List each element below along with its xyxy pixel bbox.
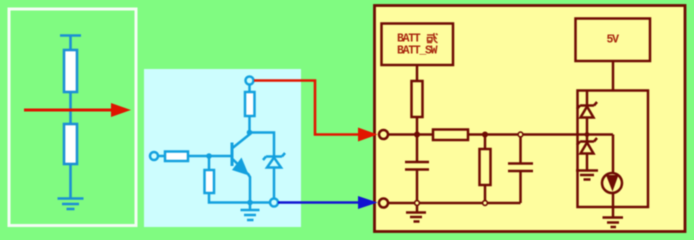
- junction collector node: [247, 130, 253, 136]
- current source arrow: [606, 175, 619, 192]
- terminal T1 collector supply: [246, 77, 254, 85]
- zener D1: [266, 155, 282, 158]
- wire bottom rail: [388, 202, 521, 205]
- ground: [58, 199, 84, 210]
- capacitor C1: [416, 135, 419, 162]
- label BATT 或 / BATT_SW: [397, 33, 438, 58]
- wire red VIN to IC: [254, 81, 360, 135]
- glyph 或 (hand drawn): [427, 33, 438, 43]
- wire: [248, 116, 251, 133]
- wire: [69, 164, 72, 198]
- resistor R6: [412, 81, 423, 117]
- ground: [603, 216, 624, 219]
- transistor Q1: [231, 143, 234, 167]
- wire: [158, 155, 166, 158]
- ground: [249, 203, 252, 211]
- yellow box circuit: [379, 19, 650, 228]
- red tap arrow: [24, 103, 131, 117]
- wire collector node to diode: [250, 133, 275, 157]
- resistor R3: [245, 92, 255, 116]
- ground: [416, 203, 419, 213]
- wire: [209, 193, 250, 203]
- wire emitter: [248, 174, 250, 203]
- resistor R2: [64, 124, 77, 164]
- wire to current source: [612, 135, 615, 175]
- zener D3: [580, 140, 594, 143]
- IC block outline: [375, 6, 686, 232]
- junction open dots: [518, 132, 523, 137]
- junction emitter node: [247, 200, 253, 206]
- middle circuit: [150, 77, 285, 221]
- wire: [416, 117, 419, 135]
- wire blue GND link to IC: [278, 201, 360, 204]
- zener D2: [586, 91, 589, 106]
- terminal T3 emitter out: [270, 199, 278, 207]
- transistor emitter arrow: [232, 158, 249, 176]
- wire: [273, 168, 276, 199]
- node VIN top terminal bar: [60, 36, 81, 52]
- wire: [612, 61, 615, 90]
- wire: [612, 193, 615, 217]
- wire ground rail: [250, 201, 270, 204]
- resistor R1: [64, 50, 77, 92]
- current source CR1: [602, 173, 622, 193]
- resistor R7: [433, 130, 468, 141]
- resistor R5: [205, 170, 215, 193]
- wire: [248, 85, 251, 94]
- left panel white frame: [9, 9, 136, 226]
- wire: [208, 156, 211, 171]
- wire: [416, 65, 419, 82]
- block 5V box: [576, 19, 651, 62]
- wire base: [188, 155, 231, 158]
- svg-text:BATT_SW: BATT_SW: [397, 45, 438, 58]
- junction node dots: [414, 132, 420, 138]
- wire: [69, 92, 72, 125]
- wire: [69, 36, 72, 52]
- svg-text:5V: 5V: [607, 34, 620, 47]
- resistor R8: [484, 135, 487, 150]
- junction base node: [206, 153, 212, 159]
- terminal T4: [379, 130, 388, 139]
- middle panel light cyan: [144, 69, 301, 227]
- sub-block outline: [578, 91, 649, 208]
- terminal T5: [379, 199, 388, 208]
- block BATT box: [382, 24, 454, 66]
- wire node rail: [388, 133, 433, 136]
- resistor R4: [165, 152, 188, 162]
- terminal T2 input: [150, 152, 158, 160]
- capacitor C2: [519, 135, 522, 164]
- wire: [468, 133, 613, 136]
- ground: [576, 169, 598, 172]
